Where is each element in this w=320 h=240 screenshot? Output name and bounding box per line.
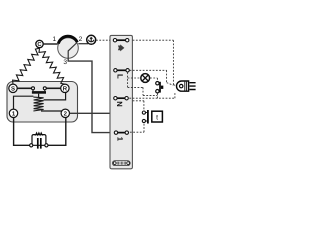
capacitor terminal right	[45, 144, 48, 147]
switch L (lamp circuit)	[117, 69, 126, 71]
terminal S	[9, 84, 17, 92]
dashed: switch L terminal down with lamp branch	[128, 72, 158, 95]
wire: overload S to contact	[17, 87, 32, 89]
terminal 1	[9, 109, 17, 117]
wire relay 2 down to capacitor	[48, 118, 66, 146]
switch 4 (mains L in, with compressor arrow)	[117, 39, 126, 41]
dashed: lamp circle to box switch 4	[96, 39, 110, 41]
motor winding run (C-R zigzag)	[39, 48, 65, 84]
terminal C	[36, 40, 43, 47]
svg-text:R: R	[63, 85, 68, 92]
terminal 2	[61, 109, 69, 117]
wire relay 2 to terminal box N switch	[70, 100, 117, 113]
capacitor terminal left	[30, 144, 33, 147]
relay coil	[33, 97, 43, 111]
dashed: switch 1 to sensor lower terminal	[130, 123, 144, 132]
dashed: N to sensor upper terminal	[133, 101, 144, 111]
thermostat dial	[58, 38, 79, 59]
svg-text:t: t	[156, 114, 158, 121]
svg-text:1: 1	[52, 36, 56, 43]
capacitor bleed resistor	[34, 133, 43, 136]
wire relay 1 down to capacitor	[14, 118, 30, 146]
svg-text:S: S	[11, 85, 15, 92]
signal lamp with symbol	[87, 35, 96, 44]
thermostat pointer	[68, 43, 76, 58]
wire: coil to terminal 2	[41, 111, 64, 113]
wire: coil to R	[44, 93, 66, 100]
svg-text:3: 3	[63, 59, 67, 66]
dashed: lamp to door switch	[150, 78, 157, 81]
terminal box	[110, 35, 132, 168]
wire thermostat 2 to signal lamp	[78, 43, 88, 45]
mains plug	[177, 81, 189, 91]
door switch	[156, 82, 159, 85]
wire thermostat 3 to switch 1 of terminal box	[68, 58, 114, 132]
overload contact left	[32, 87, 35, 90]
thermostat sensor	[142, 111, 145, 114]
wire: bimetal bar to relay coil	[38, 94, 40, 97]
relay/overload box	[7, 82, 78, 123]
switch N	[117, 97, 125, 99]
switch 1 (compressor line)	[118, 132, 126, 134]
run capacitor box	[32, 135, 46, 146]
capacitor plates	[38, 138, 41, 149]
overload bimetal bar	[33, 90, 45, 91]
terminal R	[61, 84, 69, 92]
wire C to thermostat	[43, 43, 57, 45]
wire: overload contact to R	[46, 87, 61, 89]
svg-text:L: L	[115, 74, 124, 79]
dashed: switch 4 to plug L	[133, 40, 177, 85]
wire: terminal 1 to coil	[14, 96, 34, 109]
overload contact right	[43, 87, 46, 90]
compressor arrow icon	[118, 44, 125, 51]
motor winding start (C-S zigzag)	[13, 48, 40, 84]
terminal strip element at box bottom	[112, 161, 130, 166]
svg-text:2: 2	[79, 36, 83, 43]
thermostat cam arc	[58, 36, 77, 43]
dashed: door switch to N line	[156, 93, 158, 98]
plug pins	[189, 83, 195, 90]
dashed: switch L to plug L	[130, 70, 174, 85]
interior lamp	[141, 74, 150, 83]
sensor t box	[152, 111, 163, 122]
svg-text:N: N	[115, 101, 124, 106]
dashed: N line from switch N to plug	[129, 92, 175, 98]
